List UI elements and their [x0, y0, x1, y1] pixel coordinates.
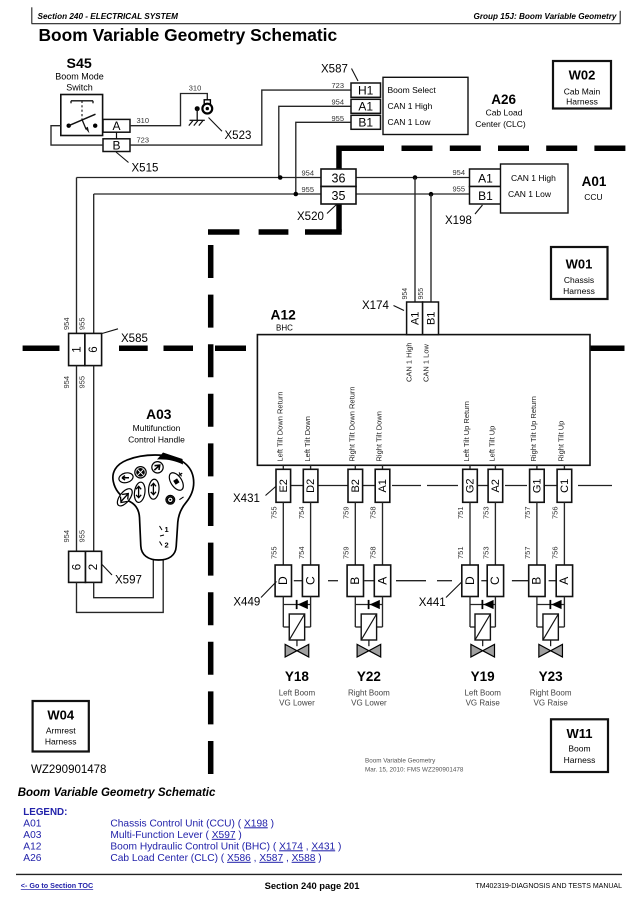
svg-text:WZ290901478: WZ290901478: [31, 764, 106, 776]
svg-text:Boom Variable Geometry Schemat: Boom Variable Geometry Schematic: [39, 25, 338, 45]
svg-text:VG Lower: VG Lower: [351, 699, 387, 708]
svg-text:C: C: [488, 576, 502, 585]
svg-text:S45: S45: [67, 56, 92, 72]
svg-text:CAN 1 High: CAN 1 High: [511, 173, 556, 183]
svg-text:X174: X174: [362, 300, 389, 312]
svg-text:CAN 1 Low: CAN 1 Low: [388, 117, 432, 127]
svg-text:H1: H1: [358, 84, 374, 98]
svg-text:Boom Hydraulic Control Unit (B: Boom Hydraulic Control Unit (BHC) ( X174…: [110, 841, 341, 852]
svg-text:Boom Mode: Boom Mode: [55, 72, 104, 82]
svg-text:TM402319-DIAGNOSIS AND TESTS M: TM402319-DIAGNOSIS AND TESTS MANUAL: [475, 883, 622, 890]
svg-text:A03: A03: [23, 830, 41, 841]
svg-text:Switch: Switch: [66, 83, 93, 93]
svg-text:Boom Variable Geometry: Boom Variable Geometry: [365, 758, 436, 765]
svg-text:754: 754: [297, 546, 306, 559]
svg-text:Right Tilt Down Return: Right Tilt Down Return: [348, 386, 357, 461]
svg-text:B: B: [530, 577, 544, 585]
svg-text:VG Raise: VG Raise: [466, 699, 501, 708]
svg-text:A: A: [557, 577, 571, 585]
svg-text:Multifunction: Multifunction: [133, 423, 181, 433]
svg-text:753: 753: [482, 506, 491, 519]
svg-text:Harness: Harness: [563, 286, 595, 296]
svg-text:X515: X515: [132, 163, 159, 175]
svg-text:W02: W02: [569, 68, 596, 83]
svg-text:D: D: [463, 576, 477, 585]
svg-text:X520: X520: [297, 211, 324, 223]
svg-text:CAN 1 High: CAN 1 High: [388, 101, 433, 111]
svg-text:Cab Load: Cab Load: [486, 108, 523, 118]
svg-text:757: 757: [523, 506, 532, 519]
svg-text:C: C: [303, 576, 317, 585]
svg-text:Left Tilt Down: Left Tilt Down: [303, 416, 312, 461]
svg-text:955: 955: [301, 185, 314, 194]
svg-text:A26: A26: [491, 92, 516, 107]
svg-text:A26: A26: [23, 853, 41, 864]
svg-text:Section 240 - ELECTRICAL SYSTE: Section 240 - ELECTRICAL SYSTEM: [38, 12, 179, 21]
svg-text:758: 758: [369, 506, 378, 519]
svg-text:Left Boom: Left Boom: [464, 689, 501, 698]
svg-text:CAN 1 Low: CAN 1 Low: [508, 189, 552, 199]
svg-text:Cab Load Center (CLC) ( X586 ,: Cab Load Center (CLC) ( X586 , X587 , X5…: [110, 853, 321, 864]
svg-text:B: B: [348, 577, 362, 585]
svg-text:723: 723: [331, 81, 344, 90]
svg-text:954: 954: [62, 530, 71, 543]
svg-text:955: 955: [78, 317, 87, 330]
svg-text:Right Boom: Right Boom: [348, 689, 390, 698]
svg-text:758: 758: [369, 546, 378, 559]
svg-text:756: 756: [551, 546, 560, 559]
svg-text:Left Boom: Left Boom: [279, 689, 316, 698]
svg-text:6: 6: [88, 346, 100, 352]
svg-text:<- Go to Section TOC: <- Go to Section TOC: [21, 881, 93, 890]
svg-text:310: 310: [137, 116, 150, 125]
svg-text:X585: X585: [121, 333, 148, 345]
svg-text:Boom: Boom: [568, 744, 590, 754]
svg-text:W11: W11: [566, 726, 592, 741]
svg-text:X523: X523: [225, 130, 252, 142]
svg-text:Left Tilt Down Return: Left Tilt Down Return: [276, 391, 285, 461]
svg-text:A: A: [375, 577, 389, 585]
svg-text:A12: A12: [271, 308, 297, 323]
svg-text:751: 751: [456, 506, 465, 519]
svg-text:B2: B2: [350, 479, 362, 492]
svg-text:BHC: BHC: [276, 324, 293, 333]
svg-text:Control Handle: Control Handle: [128, 435, 185, 445]
svg-text:Group 15J: Boom Variable Geome: Group 15J: Boom Variable Geometry: [473, 12, 616, 21]
svg-text:Boom Select: Boom Select: [388, 85, 437, 95]
svg-text:VG Raise: VG Raise: [534, 699, 569, 708]
svg-text:751: 751: [456, 546, 465, 559]
svg-text:6: 6: [72, 564, 84, 570]
svg-text:X441: X441: [419, 597, 446, 609]
svg-text:X198: X198: [445, 215, 472, 227]
svg-text:Chassis: Chassis: [564, 275, 594, 285]
svg-text:A01: A01: [582, 174, 607, 189]
svg-text:954: 954: [402, 288, 409, 300]
svg-text:A1: A1: [410, 312, 422, 325]
svg-text:A12: A12: [23, 841, 41, 852]
svg-text:Cab Main: Cab Main: [564, 87, 601, 97]
svg-text:Y19: Y19: [471, 669, 495, 684]
svg-text:A1: A1: [377, 479, 389, 492]
svg-text:2: 2: [88, 564, 100, 570]
svg-text:X431: X431: [233, 493, 260, 505]
svg-text:Mar. 15, 2010: FMS WZ290901478: Mar. 15, 2010: FMS WZ290901478: [365, 767, 464, 774]
svg-text:D: D: [276, 576, 290, 585]
svg-text:A: A: [112, 119, 120, 133]
svg-text:C1: C1: [559, 479, 571, 493]
svg-text:CAN 1 Low: CAN 1 Low: [422, 343, 431, 382]
svg-text:Armrest: Armrest: [46, 726, 76, 736]
svg-text:Left Tilt Up Return: Left Tilt Up Return: [462, 401, 471, 461]
svg-text:Harness: Harness: [566, 97, 598, 107]
svg-text:VG Lower: VG Lower: [279, 699, 315, 708]
svg-text:X597: X597: [115, 574, 142, 586]
svg-text:Center (CLC): Center (CLC): [475, 119, 526, 129]
svg-text:Harness: Harness: [45, 737, 77, 747]
svg-text:A1: A1: [478, 172, 493, 186]
svg-text:B1: B1: [478, 189, 493, 203]
svg-text:759: 759: [342, 546, 351, 559]
svg-text:A03: A03: [146, 407, 172, 422]
svg-text:Section 240 page 201: Section 240 page 201: [265, 880, 360, 891]
svg-text:Left Tilt Up: Left Tilt Up: [488, 426, 497, 462]
svg-text:Harness: Harness: [564, 755, 596, 765]
svg-text:A1: A1: [358, 100, 373, 114]
svg-text:X449: X449: [233, 596, 260, 608]
svg-text:LEGEND:: LEGEND:: [23, 807, 67, 818]
svg-text:955: 955: [418, 288, 425, 300]
svg-text:Multi-Function Lever ( X597 ): Multi-Function Lever ( X597 ): [110, 830, 241, 841]
svg-text:X587: X587: [321, 64, 348, 76]
svg-text:W01: W01: [566, 257, 593, 272]
svg-text:Boom Variable Geometry Schemat: Boom Variable Geometry Schematic: [18, 787, 216, 799]
svg-text:310: 310: [189, 84, 202, 93]
svg-text:Right Tilt Up: Right Tilt Up: [557, 421, 566, 462]
svg-text:Y18: Y18: [285, 669, 310, 684]
svg-text:D2: D2: [305, 479, 317, 493]
svg-text:35: 35: [332, 189, 346, 203]
svg-text:A2: A2: [490, 479, 502, 492]
svg-text:Y22: Y22: [357, 669, 381, 684]
svg-text:Right Tilt Down: Right Tilt Down: [375, 411, 384, 461]
svg-text:753: 753: [482, 546, 491, 559]
svg-text:G2: G2: [465, 478, 477, 493]
svg-text:1: 1: [71, 346, 83, 352]
svg-text:Right Tilt Up Return: Right Tilt Up Return: [529, 396, 538, 461]
svg-text:A01: A01: [23, 818, 41, 829]
svg-text:G1: G1: [532, 478, 544, 493]
svg-text:723: 723: [137, 135, 150, 144]
svg-text:2: 2: [165, 541, 169, 550]
svg-text:Right Boom: Right Boom: [530, 689, 572, 698]
svg-text:Y23: Y23: [539, 669, 564, 684]
svg-text:955: 955: [331, 114, 344, 123]
svg-text:CCU: CCU: [584, 192, 602, 202]
svg-text:757: 757: [523, 546, 532, 559]
svg-text:754: 754: [297, 506, 306, 519]
svg-text:955: 955: [452, 184, 465, 193]
svg-text:954: 954: [452, 168, 465, 177]
svg-text:954: 954: [301, 168, 314, 177]
svg-text:954: 954: [62, 376, 71, 389]
svg-text:B: B: [112, 139, 120, 153]
svg-text:36: 36: [332, 172, 346, 186]
svg-text:954: 954: [62, 317, 71, 330]
svg-text:W04: W04: [47, 708, 75, 723]
svg-text:CAN 1 High: CAN 1 High: [405, 342, 414, 382]
svg-text:E2: E2: [278, 479, 290, 492]
svg-text:Chassis Control Unit (CCU) ( X: Chassis Control Unit (CCU) ( X198 ): [110, 818, 274, 829]
svg-text:755: 755: [270, 506, 279, 519]
svg-text:954: 954: [331, 97, 344, 106]
svg-text:B1: B1: [426, 312, 438, 325]
svg-text:755: 755: [270, 546, 279, 559]
svg-text:756: 756: [551, 506, 560, 519]
svg-text:955: 955: [78, 376, 87, 389]
svg-text:1: 1: [165, 525, 169, 534]
svg-text:759: 759: [342, 506, 351, 519]
svg-text:955: 955: [78, 530, 87, 543]
svg-text:B1: B1: [358, 116, 373, 130]
